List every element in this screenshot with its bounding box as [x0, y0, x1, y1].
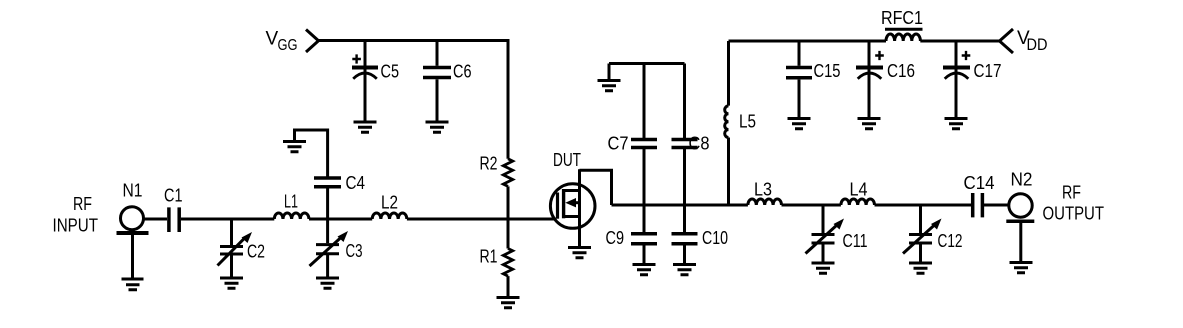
- svg-text:C7: C7: [608, 134, 629, 154]
- capacitor C17 (polarized): [943, 41, 970, 118]
- ground under C9: [633, 265, 656, 275]
- ground above C4: [283, 142, 306, 152]
- capacitor C15: [786, 41, 812, 118]
- ground under C12: [909, 263, 932, 273]
- svg-text:C10: C10: [702, 228, 728, 248]
- wire N1 to C1: [144, 218, 168, 221]
- ground under C11: [812, 263, 835, 273]
- svg-text:C1: C1: [164, 186, 183, 206]
- svg-text:L4: L4: [850, 180, 868, 200]
- VDD terminal chevron: [1000, 29, 1014, 53]
- ground under DUT: [568, 248, 591, 258]
- ground under C6: [426, 122, 449, 132]
- svg-text:L5: L5: [739, 112, 756, 132]
- inductor L2: [372, 213, 407, 219]
- svg-text:INPUT: INPUT: [53, 216, 99, 236]
- svg-text:RFC1: RFC1: [881, 8, 923, 28]
- svg-text:C14: C14: [964, 173, 995, 193]
- wire R1 to ground: [507, 276, 510, 297]
- VGG rail wire: [319, 41, 509, 159]
- wire C1 to L1: [181, 218, 274, 221]
- ground under N1: [122, 279, 144, 290]
- ground under N2: [1010, 263, 1033, 273]
- wire N2 to ground: [1019, 223, 1022, 262]
- svg-text:C17: C17: [974, 61, 1002, 81]
- resistor R1: [503, 249, 512, 277]
- wire N1 to ground: [131, 235, 134, 278]
- drain jog wire: [580, 170, 612, 205]
- svg-text:C16: C16: [887, 61, 915, 81]
- svg-text:OUTPUT: OUTPUT: [1043, 204, 1105, 224]
- svg-text:DD: DD: [1027, 36, 1048, 54]
- connector N1: [117, 207, 149, 233]
- svg-text:C15: C15: [814, 61, 841, 81]
- ground under C3: [316, 278, 339, 288]
- capacitor C10: [672, 205, 698, 264]
- svg-text:C2: C2: [247, 242, 265, 262]
- capacitor C8: [672, 64, 698, 206]
- capacitor C1: [169, 207, 179, 232]
- ground under C15: [788, 119, 811, 129]
- wire R2 to node: [507, 186, 510, 219]
- connector N2: [1006, 194, 1034, 222]
- wire C14 to N2: [984, 204, 1010, 207]
- RFC1 core line: [885, 28, 923, 31]
- ground under R1: [497, 298, 520, 308]
- RF INPUT label: [53, 194, 99, 236]
- svg-text:C3: C3: [346, 241, 363, 261]
- wire L3 to L4: [782, 204, 841, 207]
- inductor L5: [725, 41, 729, 205]
- inductor RFC1: [886, 34, 920, 41]
- capacitor C11 (variable): [806, 205, 845, 263]
- capacitor C16 (polarized): [856, 41, 884, 118]
- svg-text:DUT: DUT: [553, 150, 581, 170]
- svg-text:C8: C8: [689, 134, 710, 154]
- resistor R2: [503, 159, 512, 187]
- ground under C10: [673, 265, 696, 275]
- svg-text:C9: C9: [606, 228, 625, 248]
- svg-text:C11: C11: [843, 231, 868, 251]
- VGG terminal chevron: [306, 30, 319, 53]
- top bypass rail wire: [609, 62, 685, 65]
- VDD rail wire: [729, 40, 1000, 43]
- svg-text:N2: N2: [1011, 170, 1033, 190]
- wire L4 to C14: [875, 204, 972, 207]
- svg-text:RF: RF: [73, 194, 92, 214]
- svg-text:C5: C5: [381, 62, 400, 82]
- ground at rail: [598, 81, 621, 91]
- output line wire: [612, 204, 748, 207]
- capacitor C3 (variable): [310, 219, 349, 277]
- capacitor C14: [973, 193, 983, 217]
- inductor L3: [748, 199, 782, 205]
- ground under C17: [945, 119, 968, 129]
- svg-text:L1: L1: [284, 192, 298, 212]
- rail ground stub: [608, 64, 611, 80]
- ground under C5: [354, 122, 377, 132]
- capacitor C7: [631, 64, 657, 206]
- capacitor C5 (polarized): [352, 41, 378, 122]
- VDD label: [1017, 28, 1048, 54]
- capacitor C12 (variable): [903, 205, 942, 263]
- capacitor C6: [423, 41, 451, 122]
- wire L2 to DUT gate: [407, 218, 556, 221]
- svg-text:C12: C12: [938, 231, 963, 251]
- wire L1 to L2: [309, 218, 372, 221]
- capacitor C2 (variable): [218, 219, 253, 277]
- svg-text:R1: R1: [480, 247, 498, 267]
- svg-text:L2: L2: [381, 193, 398, 213]
- svg-text:C6: C6: [453, 62, 472, 82]
- ground under C16: [858, 119, 881, 129]
- RF OUTPUT label: [1043, 183, 1105, 224]
- VGG label: [266, 29, 298, 55]
- capacitor C4 branch: [295, 130, 342, 219]
- inductor L4: [841, 199, 875, 205]
- transistor DUT (MOSFET): [550, 169, 595, 246]
- svg-text:L3: L3: [754, 180, 772, 200]
- wire node to R1: [507, 219, 510, 249]
- svg-text:N1: N1: [123, 181, 143, 201]
- inductor L1: [274, 213, 309, 219]
- ground under C2: [220, 278, 243, 288]
- svg-text:GG: GG: [278, 37, 298, 54]
- svg-text:R2: R2: [480, 154, 498, 174]
- capacitor C9: [631, 205, 657, 264]
- svg-text:C4: C4: [346, 173, 366, 193]
- svg-text:RF: RF: [1062, 183, 1081, 203]
